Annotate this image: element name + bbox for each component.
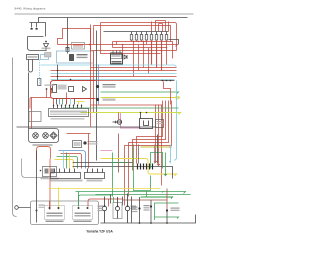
wire red fuse drop cross c bbox=[161, 42, 163, 71]
meter feed black bbox=[28, 73, 30, 129]
wire red center drop b bbox=[93, 51, 95, 113]
main switch text bbox=[77, 54, 88, 55]
lamp A label bbox=[98, 206, 104, 207]
turn signal lamp B bbox=[125, 194, 129, 224]
wire cyan stub low bbox=[169, 145, 171, 163]
wire pink stub bbox=[101, 150, 113, 152]
stop switch connector bbox=[53, 85, 57, 93]
capacitor C1 bbox=[31, 23, 33, 28]
hl text lo1 bbox=[47, 213, 63, 215]
wire red lamp feed bbox=[118, 113, 120, 121]
sensor S bbox=[96, 98, 99, 101]
main switch text2 bbox=[77, 57, 88, 58]
strip text lower bbox=[50, 114, 87, 116]
meter lamp box bbox=[113, 203, 122, 219]
wire yellowgreen y146 bbox=[141, 146, 172, 148]
wire yellow headlight drop bbox=[58, 188, 60, 210]
spark plug gap bbox=[44, 44, 49, 47]
hl text lo3 bbox=[46, 221, 64, 223]
handlebar connector strip bbox=[49, 109, 89, 117]
sidestand label2 bbox=[144, 207, 150, 208]
stop switch label bbox=[58, 85, 67, 90]
spark plug lead bbox=[45, 47, 47, 51]
wire green scurve bbox=[57, 157, 78, 169]
wire red long drops bbox=[134, 42, 167, 77]
hl text lo2 bbox=[47, 215, 63, 217]
wire black meter bus bbox=[17, 126, 157, 128]
wire green rect right bbox=[151, 153, 163, 169]
wire red box exit bbox=[66, 93, 68, 105]
meter assembly box bbox=[29, 129, 59, 143]
junction dots right bbox=[162, 80, 172, 82]
wire green drop hl bbox=[78, 192, 80, 207]
wire gray vert low bbox=[138, 145, 140, 164]
lamp A label3 bbox=[98, 210, 104, 211]
headlight container bbox=[31, 201, 99, 225]
wire yellow engine stub bbox=[77, 101, 85, 103]
wire black ss bbox=[150, 200, 152, 223]
flasher dots bbox=[40, 170, 47, 172]
connector cyan bbox=[38, 79, 41, 86]
left enclosure line bbox=[13, 58, 17, 217]
wire label small2 bbox=[39, 207, 45, 208]
wire red riser l bbox=[113, 42, 117, 48]
pulser label bbox=[103, 84, 116, 85]
fuse drops bbox=[132, 40, 167, 71]
wire red top d bbox=[101, 23, 161, 54]
wire red long drop c bbox=[161, 105, 163, 186]
label ignition bbox=[42, 48, 51, 50]
ignition coil bar bbox=[30, 23, 46, 37]
wire yellow drop y bbox=[69, 155, 71, 169]
wire green arrow r bbox=[164, 153, 167, 176]
sidestand label bbox=[144, 205, 150, 206]
wire green tall b bbox=[134, 145, 151, 191]
fuse F1 bbox=[130, 35, 132, 41]
bolt lead bbox=[19, 207, 31, 209]
lamp A label2 bbox=[98, 208, 104, 209]
wire darkred drop a bbox=[118, 134, 120, 173]
flasher relay text bbox=[157, 121, 163, 122]
wire darkred low bbox=[123, 199, 168, 201]
lamp B label2 bbox=[131, 208, 137, 209]
wire black distribution bbox=[104, 31, 169, 33]
lamp B dot bbox=[127, 205, 129, 207]
capacitor C2 bbox=[36, 23, 38, 28]
junction dots mid bbox=[57, 70, 72, 81]
hl text hi2 bbox=[75, 215, 91, 217]
diode D2 bbox=[124, 55, 127, 59]
main switch symbol bbox=[70, 55, 74, 61]
wire black rb bbox=[139, 197, 141, 223]
wire cyan long vertical bbox=[175, 81, 177, 161]
flasher inner marks2 bbox=[51, 169, 55, 174]
wire gray low2 bbox=[154, 145, 156, 164]
wire pink harness bbox=[121, 113, 141, 128]
hl text hi3 bbox=[74, 221, 92, 223]
wire red box top ext bbox=[96, 80, 161, 82]
sensor box bbox=[41, 55, 49, 60]
tail label bbox=[171, 208, 180, 209]
wire black top bus bbox=[39, 18, 188, 23]
wire red scurve bbox=[61, 154, 82, 169]
connector block A pins bbox=[55, 169, 75, 173]
spark plug P1 bbox=[45, 41, 47, 43]
wire yellow scurve bbox=[55, 160, 74, 169]
wire blue scurve bbox=[59, 151, 86, 169]
lamp A dot bbox=[104, 205, 106, 207]
wire red arrow drop b bbox=[157, 105, 160, 166]
main switch label red2 bbox=[73, 46, 83, 47]
connector labels b bbox=[87, 180, 103, 182]
relay unit box bbox=[111, 54, 123, 64]
wire green drop right bbox=[146, 191, 148, 197]
wire black bottom left drop bbox=[37, 151, 132, 223]
wire yellow low long bbox=[49, 188, 161, 190]
multi-pin connector block bbox=[138, 164, 153, 170]
strip caption bbox=[51, 118, 85, 120]
connector block A bbox=[51, 173, 81, 179]
meter feed red bbox=[31, 98, 33, 129]
pulser label2 bbox=[103, 86, 116, 87]
sensor label bbox=[103, 97, 116, 98]
lamp L1 bbox=[117, 120, 121, 124]
wire red top c bbox=[91, 29, 177, 51]
sensor label2 bbox=[103, 99, 116, 100]
fuse F4 bbox=[145, 35, 147, 41]
wire black fuse link bbox=[169, 40, 179, 45]
wire green drop g bbox=[66, 153, 68, 169]
ground bus bottom bbox=[101, 215, 196, 224]
wire cyan drop c bbox=[63, 151, 65, 169]
wire yellow mid bbox=[101, 98, 180, 100]
clutch switch stub bbox=[47, 90, 52, 98]
turn signal lamp A bbox=[102, 197, 106, 224]
meter label bbox=[33, 144, 53, 146]
fuse F5 bbox=[150, 35, 152, 41]
clutch label bbox=[45, 85, 55, 86]
wire cyan mid c bbox=[51, 79, 175, 81]
fuse panel label box bbox=[111, 53, 122, 59]
meter lamp dot bbox=[117, 205, 119, 207]
wire cyan mid b bbox=[51, 73, 177, 75]
hl pin dots bbox=[36, 207, 89, 212]
fuse arch 2 bbox=[159, 24, 163, 32]
wire red arrow drop a bbox=[154, 105, 157, 163]
relay pins bbox=[113, 51, 120, 55]
wire red drop lampA bbox=[108, 199, 110, 207]
wire green low b bbox=[96, 194, 191, 196]
capacitor C2 plate bbox=[36, 28, 38, 30]
relay circle bbox=[83, 141, 86, 144]
wire red mid b bbox=[51, 70, 177, 72]
pickup coil loop bbox=[29, 60, 33, 73]
wire red center drop a bbox=[90, 25, 92, 127]
svg-text:Yamaha YZF USA: Yamaha YZF USA bbox=[86, 230, 113, 234]
lamp B label bbox=[131, 206, 137, 207]
fuse F8 bbox=[165, 35, 167, 41]
junction dot switch bbox=[67, 44, 69, 46]
gauge G2 bbox=[43, 133, 49, 139]
fuse F2 bbox=[135, 35, 137, 41]
tail label2 bbox=[171, 210, 180, 211]
wire green upper bbox=[63, 107, 179, 109]
gauge G3 diamond bbox=[50, 132, 57, 139]
flasher relay text2 bbox=[157, 123, 163, 124]
connector block B pins bbox=[88, 169, 103, 173]
headlight sub-box lo bbox=[45, 206, 65, 220]
relay circle label2 bbox=[88, 143, 98, 144]
fuse arch 1 bbox=[156, 21, 166, 32]
wire label small bbox=[39, 205, 45, 206]
wire red left loop bbox=[30, 98, 51, 109]
wire red mid135 bbox=[67, 133, 91, 135]
flasher label bbox=[41, 178, 59, 180]
relay small box bbox=[69, 87, 74, 92]
relay label bbox=[74, 142, 81, 146]
wire black switch drop bbox=[67, 18, 69, 54]
CDI label bbox=[28, 56, 38, 58]
wire red bundle r1 bbox=[137, 101, 163, 164]
connector labels bbox=[51, 180, 83, 182]
wire green tail rect bbox=[155, 203, 179, 220]
wire red headlight drop bbox=[49, 201, 51, 210]
wire green mid bbox=[101, 92, 179, 94]
diode D1 bbox=[83, 87, 87, 92]
small box left bbox=[29, 112, 41, 122]
flasher relay box bbox=[156, 120, 164, 128]
main switch label red bbox=[73, 44, 83, 46]
wire red fuse drop cross b bbox=[156, 42, 158, 68]
main switch label box bbox=[72, 43, 85, 50]
wire red bundle r4 bbox=[125, 101, 172, 206]
fuse F7 bbox=[160, 35, 162, 41]
bolt circle bbox=[15, 206, 19, 210]
wire red low bbox=[88, 199, 123, 207]
side label tab bbox=[45, 53, 52, 58]
CDI unit box bbox=[27, 55, 39, 60]
wire black conn bus b bbox=[73, 167, 173, 179]
oil level unit box bbox=[140, 113, 153, 129]
wire red left long bbox=[49, 159, 51, 210]
rb dot bbox=[138, 207, 140, 209]
wire red bus44 bbox=[58, 45, 178, 47]
wire red staircase bbox=[164, 82, 171, 105]
switch connector bbox=[66, 48, 69, 52]
pin dots bbox=[53, 105, 82, 106]
fuse F6 bbox=[155, 35, 157, 41]
gauge G1 bbox=[33, 133, 39, 139]
pulser P bbox=[96, 85, 99, 88]
wire red bus47 bbox=[113, 47, 167, 49]
fuse pins top bbox=[132, 32, 167, 35]
wire red bus41 bbox=[113, 42, 173, 59]
wire red top b bbox=[94, 26, 171, 42]
wire darkred tail bbox=[166, 189, 168, 211]
wire red drop88 bbox=[88, 134, 90, 169]
wire red bundle r2 bbox=[133, 101, 166, 171]
turn relay box bbox=[73, 141, 82, 148]
meter lamp circle bbox=[116, 197, 120, 219]
wire green low a bbox=[76, 192, 186, 194]
wire black drops bottom bbox=[111, 195, 123, 206]
wire green tail low bbox=[155, 217, 179, 219]
wire red drop122 bbox=[122, 45, 124, 57]
main switch box bbox=[57, 51, 94, 63]
sidestand label3 bbox=[144, 209, 150, 210]
flasher cluster bbox=[43, 167, 57, 177]
handlebar switch drops bbox=[54, 99, 79, 105]
enclosure corner low bbox=[22, 159, 49, 178]
rear brake label2 bbox=[132, 209, 138, 210]
lamp arrow bbox=[113, 121, 117, 123]
wire red bundle r3 bbox=[129, 101, 169, 197]
strip text bbox=[50, 111, 87, 113]
rear brake label3 bbox=[132, 211, 138, 212]
wire black tail drop bbox=[166, 211, 168, 224]
wire yellow harness bbox=[101, 159, 177, 177]
wire black right bus bbox=[161, 80, 175, 82]
wire black right low bbox=[157, 135, 159, 164]
wire red ignition feed bbox=[58, 29, 91, 45]
capacitor C1 plate bbox=[31, 28, 33, 30]
yellow blob bbox=[176, 96, 180, 99]
wire cyan sensor drop bbox=[39, 60, 41, 87]
flasher inner marks bbox=[45, 169, 49, 174]
wire green tall a bbox=[112, 153, 114, 197]
fuse panel label text bbox=[112, 54, 121, 57]
rear brake label bbox=[132, 207, 138, 208]
wire red left n-loop bbox=[37, 147, 51, 161]
wire red cross right bbox=[91, 104, 163, 106]
engine stop switch box red bbox=[51, 81, 96, 99]
wire black center drop bbox=[96, 31, 98, 161]
ground bus dots bbox=[139, 222, 168, 224]
wire yellowgreen long bbox=[81, 113, 181, 115]
wire green link bbox=[113, 162, 129, 164]
wire red top a bbox=[101, 23, 177, 51]
wire green curve hl bbox=[79, 195, 113, 207]
wire blue center drop bbox=[98, 65, 100, 105]
wire red mid c bbox=[51, 76, 177, 78]
wire green drop meter bbox=[113, 197, 115, 203]
headlight sub-box hi bbox=[73, 206, 93, 220]
ss dot bbox=[150, 205, 152, 207]
wire black conn bus a bbox=[73, 162, 133, 164]
fuse F3 bbox=[140, 35, 142, 41]
junction dot y146 bbox=[170, 146, 172, 148]
tail dot bbox=[166, 209, 168, 211]
wire green tall c bbox=[150, 176, 152, 191]
wire red top e bbox=[93, 26, 95, 45]
connector pins bbox=[54, 105, 82, 109]
junction dots fuse bus bbox=[89, 41, 168, 52]
fuse arch 3 bbox=[152, 22, 169, 32]
wire red fuse drop cross a bbox=[151, 42, 153, 65]
coil housing outline bbox=[28, 37, 47, 51]
clutch switch marks bbox=[46, 88, 53, 90]
wire cyan mid bus bbox=[41, 65, 177, 67]
green hook a bbox=[162, 191, 164, 193]
junction dots yg bbox=[140, 112, 148, 114]
hl text hi1 bbox=[75, 213, 91, 215]
relay circle label bbox=[88, 141, 98, 142]
svg-text:8440: Wiring diagrams: 8440: Wiring diagrams bbox=[15, 7, 46, 11]
wire green low c bbox=[141, 197, 173, 199]
wire red mid a bbox=[91, 67, 177, 69]
connector block B bbox=[85, 173, 105, 179]
wire black stub bbox=[57, 65, 59, 81]
header rule bbox=[15, 13, 194, 15]
